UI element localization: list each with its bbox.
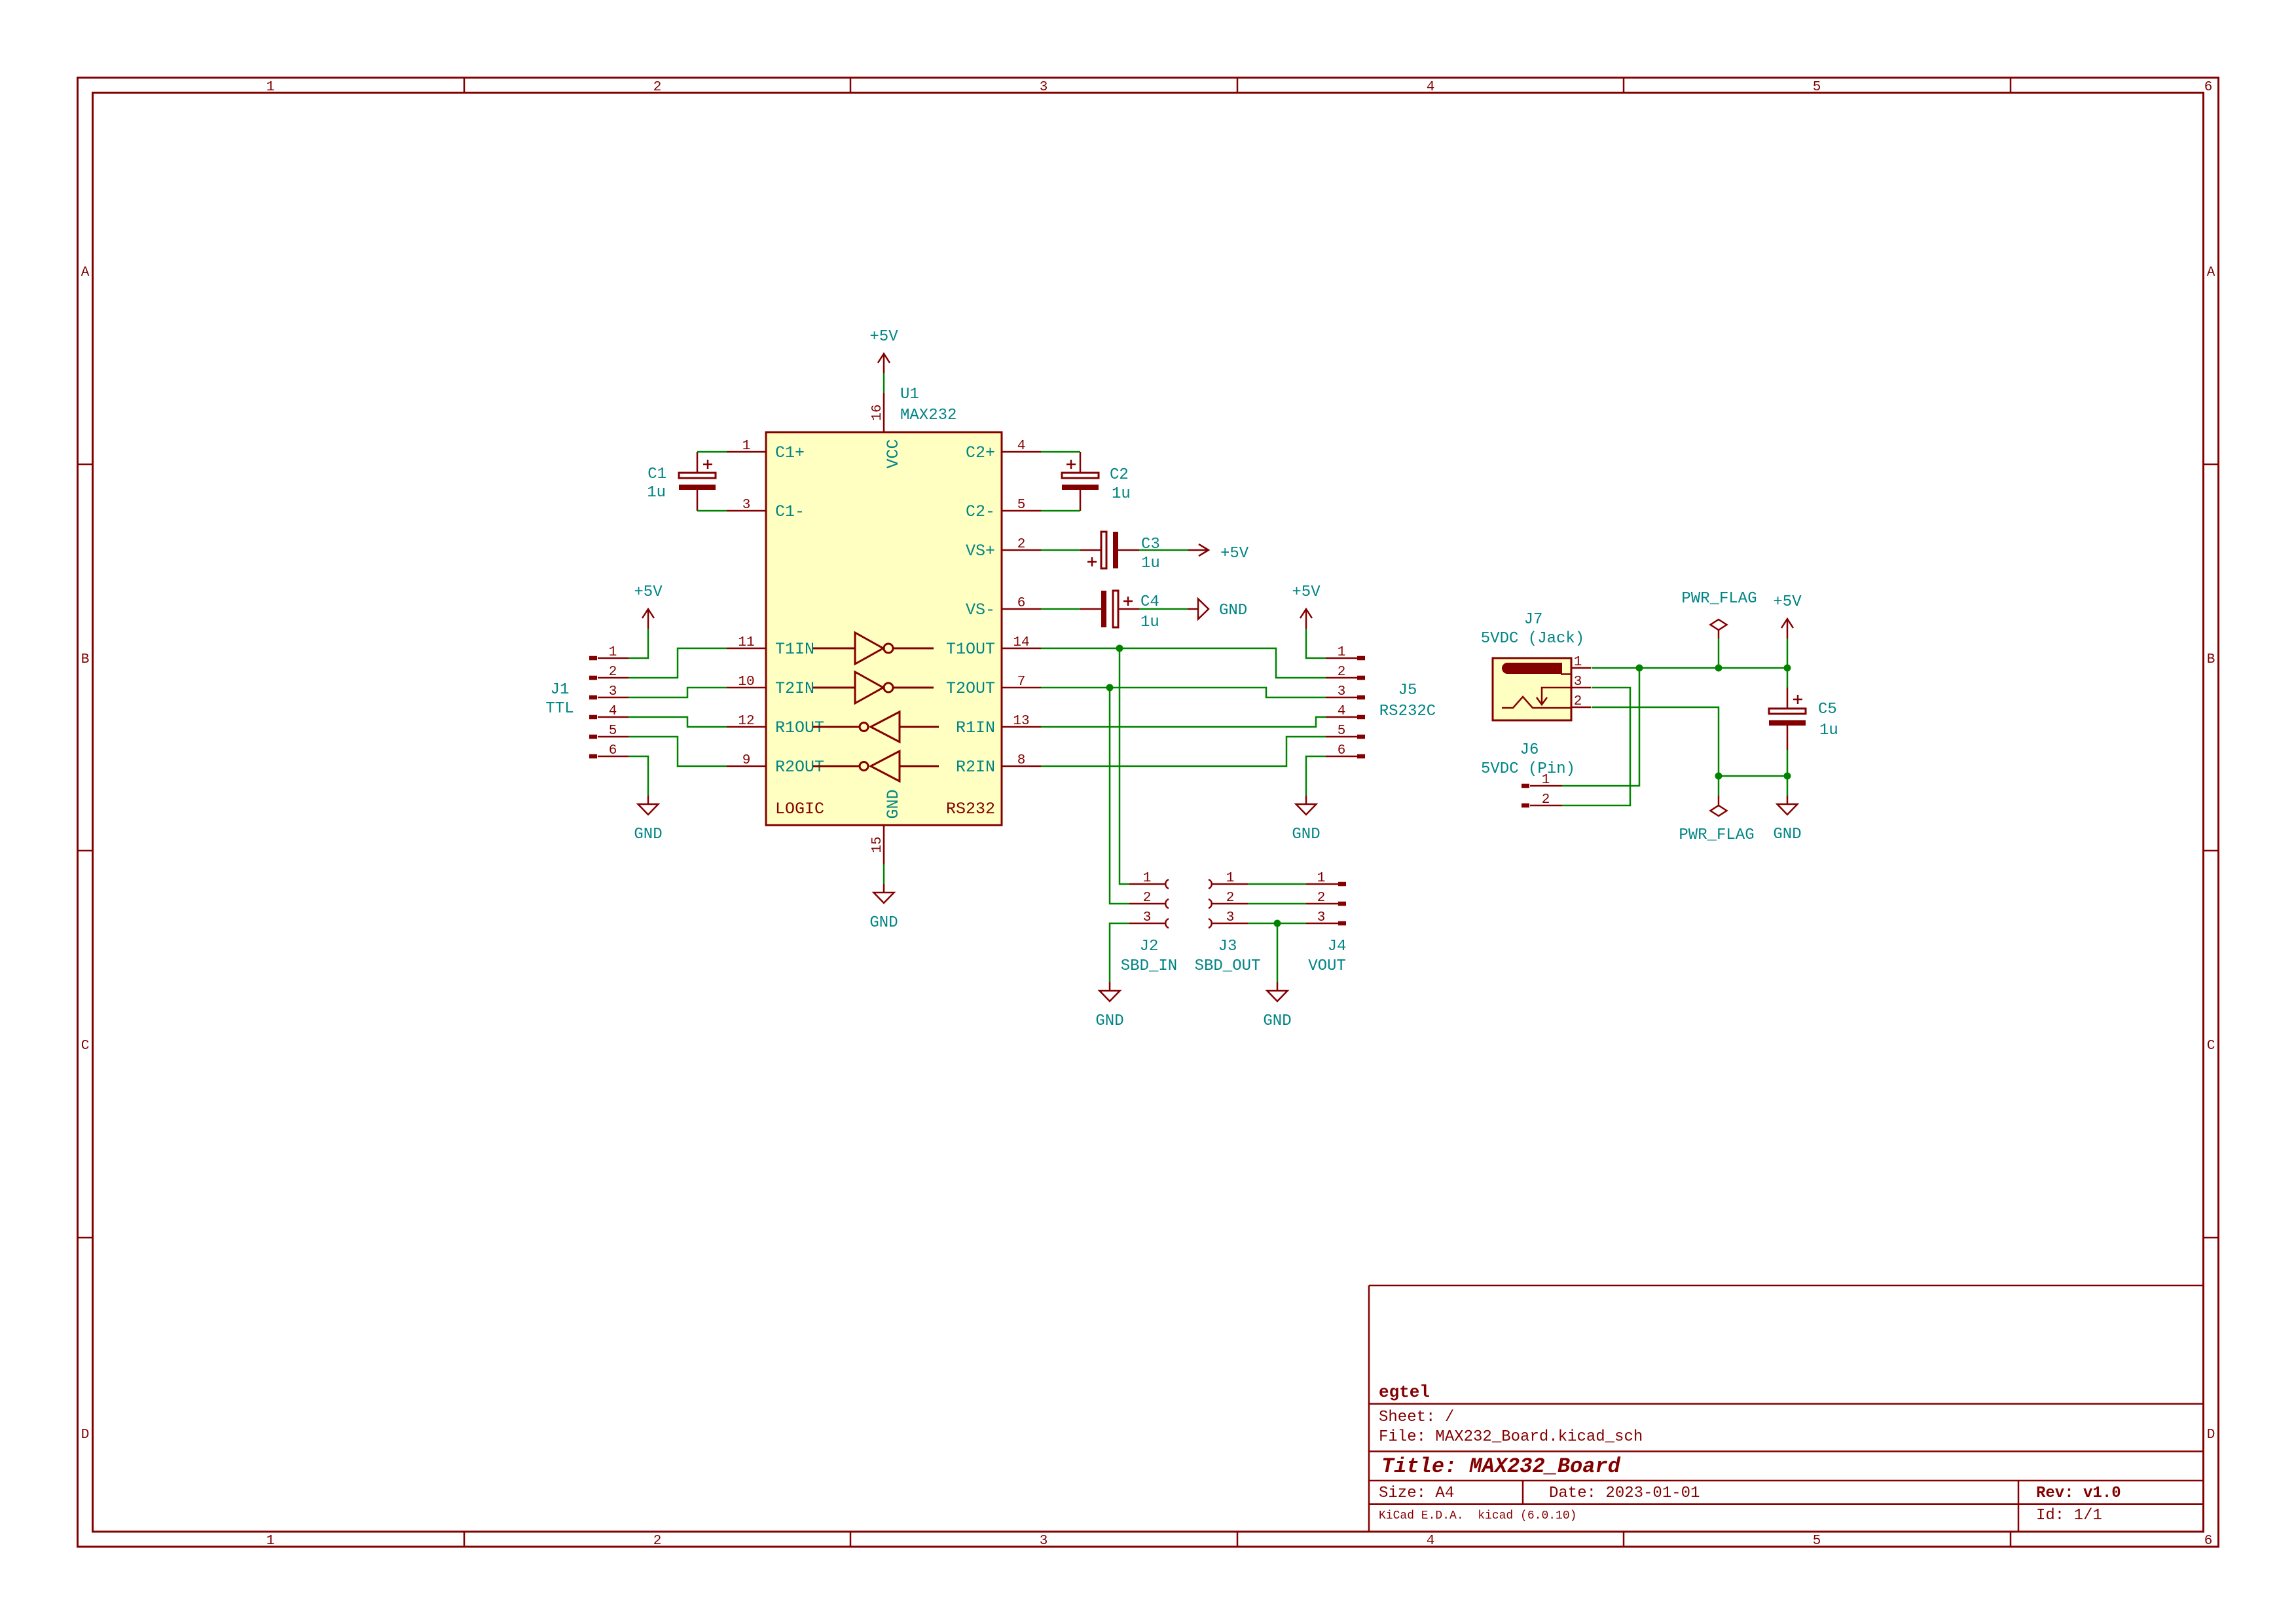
svg-text:+5V: +5V <box>1220 545 1249 563</box>
J5 pin 2 <box>1357 676 1365 680</box>
svg-text:6: 6 <box>1338 743 1346 758</box>
junction T2OUT <box>1106 684 1114 692</box>
capacitor C5 top plate <box>1769 709 1806 714</box>
svg-text:GND: GND <box>1292 826 1320 843</box>
svg-text:J4: J4 <box>1328 938 1347 955</box>
svg-text:A: A <box>2207 265 2215 280</box>
svg-text:T2OUT: T2OUT <box>946 679 995 698</box>
junction +5V rail J6 <box>1636 665 1643 672</box>
frame column ticks top <box>464 78 465 93</box>
svg-text:C1-: C1- <box>775 502 805 521</box>
wire J7 pin3 to J6 pin2 <box>1562 688 1630 805</box>
svg-text:Date: 2023-01-01: Date: 2023-01-01 <box>1549 1485 1700 1502</box>
power GND below J5 <box>1305 796 1307 804</box>
power GND right-facing at C4 <box>1188 608 1198 610</box>
J2 pin 3 <box>1129 923 1165 925</box>
svg-text:2: 2 <box>653 1534 662 1549</box>
svg-text:4: 4 <box>1017 439 1026 454</box>
J7 switch arrow <box>1542 688 1571 704</box>
svg-text:3: 3 <box>1338 684 1346 699</box>
capacitor C5 bottom plate <box>1769 720 1806 726</box>
wire T1OUT junction to J2 pin1 <box>1120 648 1129 884</box>
svg-text:PWR_FLAG: PWR_FLAG <box>1679 826 1754 844</box>
wire U1 pin4 to C2 top <box>1041 451 1080 453</box>
J5 pin 1 <box>1357 656 1365 661</box>
svg-text:8: 8 <box>1017 753 1026 768</box>
svg-text:GND: GND <box>884 789 903 819</box>
U1 pin 9 R2OUT <box>727 766 766 767</box>
svg-text:3: 3 <box>1040 80 1048 95</box>
svg-text:RS232: RS232 <box>946 800 995 819</box>
frame row ticks right <box>2204 464 2219 466</box>
capacitor C3 pin left <box>1080 549 1101 551</box>
svg-text:5VDC (Jack): 5VDC (Jack) <box>1481 630 1584 648</box>
wire rail to J6 pin1 <box>1562 668 1639 786</box>
U1 pin 12 R1OUT <box>727 726 766 728</box>
wire VOUT junction to GND <box>1277 923 1279 982</box>
svg-text:2: 2 <box>1338 665 1346 680</box>
svg-text:2: 2 <box>1143 891 1152 906</box>
svg-text:2: 2 <box>1317 891 1326 906</box>
svg-text:GND: GND <box>1219 602 1247 619</box>
svg-text:4: 4 <box>1338 704 1346 719</box>
U1 pin 7 T2OUT <box>1002 687 1041 689</box>
U1 pin 5 C2- <box>1002 510 1041 512</box>
svg-text:5: 5 <box>1338 724 1346 739</box>
wire C4 to GND <box>1139 608 1188 610</box>
svg-text:T1IN: T1IN <box>775 640 814 659</box>
svg-text:13: 13 <box>1013 714 1029 729</box>
J1 pin 1 <box>589 656 597 661</box>
wire J1 pin5 to R2OUT <box>629 737 727 766</box>
svg-text:10: 10 <box>738 674 754 690</box>
svg-text:9: 9 <box>742 753 751 768</box>
svg-text:J7: J7 <box>1524 611 1543 629</box>
U1 pin 4 C2+ <box>1002 451 1041 453</box>
capacitor C5 pin bottom <box>1787 726 1789 750</box>
U1 inverter T2 <box>813 687 855 689</box>
svg-text:7: 7 <box>1017 674 1026 690</box>
capacitor C1 bottom plate <box>679 485 716 490</box>
J4 pin 2 <box>1306 903 1338 905</box>
wire J1 pin6 to GND <box>629 756 648 796</box>
J5 pin 6 <box>1357 754 1365 759</box>
svg-text:C2-: C2- <box>966 502 995 521</box>
U1 pin 6 VS- <box>1002 608 1041 610</box>
svg-text:3: 3 <box>742 498 751 513</box>
wire J5 pin1 to +5V <box>1306 629 1326 658</box>
wire J3 pin1 to J4 pin1 <box>1248 883 1306 885</box>
power GND below J1 <box>647 796 649 804</box>
svg-text:VCC: VCC <box>884 439 903 468</box>
svg-text:4: 4 <box>1427 80 1435 95</box>
junction +5V rail C5 <box>1784 665 1791 672</box>
svg-text:C: C <box>81 1039 90 1054</box>
power GND right section <box>1787 796 1789 804</box>
svg-text:PWR_FLAG: PWR_FLAG <box>1681 590 1757 608</box>
svg-text:5: 5 <box>609 724 617 739</box>
svg-text:5: 5 <box>1813 1534 1821 1549</box>
capacitor C2 pin bottom <box>1080 490 1082 511</box>
wire U1 pin16 to +5V <box>883 373 885 393</box>
wire C1 top to U1 pin1 <box>697 451 727 453</box>
svg-text:Id: 1/1: Id: 1/1 <box>2036 1507 2102 1524</box>
capacitor C1 pin top <box>697 452 699 473</box>
wire U1 pin15 to GND <box>883 864 885 884</box>
wire J1 pin4 to R1OUT <box>629 717 727 727</box>
svg-text:C1: C1 <box>647 466 666 483</box>
J7 switch zigzag <box>1502 697 1571 708</box>
svg-text:3: 3 <box>609 684 617 699</box>
svg-text:TTL: TTL <box>545 700 574 718</box>
J7 pin 1 <box>1571 667 1591 669</box>
capacitor C4 pin right <box>1118 608 1139 610</box>
J3 pin 3 <box>1212 923 1248 925</box>
title block divider size/date <box>1522 1481 1524 1504</box>
J7 pin 3 <box>1571 687 1591 689</box>
svg-text:3: 3 <box>1143 910 1152 925</box>
svg-text:Size: A4: Size: A4 <box>1379 1485 1454 1502</box>
wire J7 pin1 +5V rail <box>1592 667 1787 669</box>
svg-text:C2+: C2+ <box>966 443 995 462</box>
wire C3 to +5V <box>1139 549 1188 551</box>
svg-text:R1IN: R1IN <box>956 718 995 737</box>
capacitor C3 left plate <box>1101 532 1106 568</box>
svg-text:U1: U1 <box>900 386 919 403</box>
capacitor C4 right plate <box>1113 591 1118 627</box>
svg-text:J3: J3 <box>1218 938 1237 955</box>
svg-text:T1OUT: T1OUT <box>946 640 995 659</box>
J1 pin 4 <box>589 715 597 720</box>
U1 pin 14 T1OUT <box>1002 648 1041 650</box>
wire J2 pin3 to GND <box>1110 923 1129 982</box>
svg-text:GND: GND <box>1095 1012 1123 1030</box>
svg-text:6: 6 <box>2204 1534 2213 1549</box>
title block row lines <box>1369 1403 2204 1405</box>
wire C1 bottom to U1 pin3 <box>697 510 727 512</box>
U1 pin 3 C1- <box>727 510 766 512</box>
wire R2IN to J5 pin5 <box>1041 737 1326 766</box>
C4 plus sign <box>1123 600 1133 602</box>
svg-text:2: 2 <box>1574 694 1582 709</box>
capacitor C3 pin right <box>1118 549 1139 551</box>
IC U1 MAX232 body <box>766 432 1002 825</box>
svg-text:3: 3 <box>1574 674 1582 690</box>
title block divider rev/id <box>2018 1481 2020 1532</box>
svg-text:A: A <box>81 265 90 280</box>
wire J1 pin2 to T1IN <box>629 648 727 678</box>
svg-text:6: 6 <box>2204 80 2213 95</box>
J5 pin 3 <box>1357 695 1365 700</box>
J3 pin 2 <box>1212 903 1248 905</box>
svg-text:2: 2 <box>1542 792 1550 807</box>
svg-text:Rev: v1.0: Rev: v1.0 <box>2036 1485 2121 1502</box>
svg-text:1: 1 <box>609 645 617 660</box>
svg-text:egtel: egtel <box>1379 1382 1430 1402</box>
svg-text:SBD_OUT: SBD_OUT <box>1195 957 1261 975</box>
J3 pin 1 <box>1212 883 1248 885</box>
svg-text:16: 16 <box>870 404 885 420</box>
svg-text:D: D <box>2207 1428 2215 1443</box>
svg-text:J2: J2 <box>1140 938 1159 955</box>
svg-text:1: 1 <box>1574 655 1582 670</box>
svg-text:D: D <box>81 1428 90 1443</box>
svg-text:B: B <box>81 652 90 667</box>
power flag PWR_FLAG bottom <box>1718 796 1720 805</box>
svg-text:GND: GND <box>634 826 662 843</box>
J1 pin 3 <box>589 695 597 700</box>
wire GND rail to PWR_FLAG bottom <box>1718 776 1720 796</box>
svg-text:1u: 1u <box>1141 555 1160 572</box>
power flag PWR_FLAG top <box>1718 630 1720 638</box>
wire J5 pin6 to GND <box>1306 756 1326 796</box>
frame column ticks bottom <box>464 1532 465 1547</box>
svg-text:+5V: +5V <box>1292 583 1321 601</box>
power +5V right-facing at C3 <box>1188 549 1209 551</box>
junction GND rail PWR_FLAG <box>1715 773 1722 780</box>
svg-text:1u: 1u <box>1819 722 1838 739</box>
svg-text:B: B <box>2207 652 2215 667</box>
svg-text:SBD_IN: SBD_IN <box>1121 957 1177 975</box>
svg-text:File: MAX232_Board.kicad_sch: File: MAX232_Board.kicad_sch <box>1379 1428 1643 1446</box>
title block outline <box>1369 1285 2204 1532</box>
J1 pin 5 <box>589 735 597 739</box>
wire J1 pin3 to T2IN <box>629 688 727 697</box>
J4 pin 3 <box>1306 923 1338 925</box>
power +5V above U1 <box>883 354 885 373</box>
U1 pin 10 T2IN <box>727 687 766 689</box>
power GND below J2 <box>1109 982 1111 991</box>
svg-text:+5V: +5V <box>1773 593 1802 611</box>
svg-text:3: 3 <box>1317 910 1326 925</box>
wire PWR_FLAG top to rail <box>1718 638 1720 668</box>
J6 pin 2 <box>1522 803 1529 808</box>
svg-text:1u: 1u <box>1112 485 1131 503</box>
svg-text:5: 5 <box>1017 498 1026 513</box>
svg-text:LOGIC: LOGIC <box>775 800 824 819</box>
C5 plus sign <box>1793 699 1802 701</box>
svg-text:2: 2 <box>609 665 617 680</box>
wire J3 pin3 to J4 pin3 <box>1248 923 1306 925</box>
J7 pin 2 <box>1571 707 1591 709</box>
wire +5V to rail <box>1787 638 1789 668</box>
frame row ticks left <box>78 464 93 466</box>
wire R1IN to J5 pin4 <box>1041 717 1326 727</box>
svg-text:GND: GND <box>1773 826 1801 843</box>
svg-text:T2IN: T2IN <box>775 679 814 698</box>
wire T2OUT to J5 pin3 <box>1041 688 1326 697</box>
J4 pin 1 <box>1306 883 1338 885</box>
svg-text:4: 4 <box>1427 1534 1435 1549</box>
svg-text:C2: C2 <box>1110 466 1129 484</box>
svg-text:J6: J6 <box>1520 741 1539 759</box>
wire C5 bottom to GND rail <box>1787 750 1789 776</box>
power +5V above J1 <box>647 609 649 629</box>
wire J1 pin1 to +5V <box>629 629 648 658</box>
power GND below U1 <box>883 884 885 893</box>
svg-text:MAX232: MAX232 <box>900 407 957 424</box>
U1 pin 1 C1+ <box>727 451 766 453</box>
capacitor C4 left plate <box>1101 591 1106 627</box>
svg-text:C5: C5 <box>1818 701 1837 718</box>
U1 inverter T1 <box>813 648 855 650</box>
capacitor C2 bottom plate <box>1062 485 1099 490</box>
svg-text:1u: 1u <box>647 484 666 502</box>
svg-text:+5V: +5V <box>869 328 898 346</box>
svg-text:1: 1 <box>266 80 275 95</box>
junction GND rail C5 <box>1784 773 1791 780</box>
J6 pin 1 <box>1522 784 1529 788</box>
U1 pin 15 GND <box>883 825 885 864</box>
svg-text:+5V: +5V <box>634 583 663 601</box>
wire T1OUT to J5 pin2 <box>1041 648 1326 678</box>
junction T1OUT <box>1116 645 1123 652</box>
capacitor C3 right plate <box>1113 532 1118 568</box>
svg-text:6: 6 <box>1017 596 1026 611</box>
svg-text:1: 1 <box>1338 645 1346 660</box>
wire J7 pin2 to GND rail <box>1592 707 1719 776</box>
capacitor C4 pin left <box>1080 608 1101 610</box>
capacitor C1 pin bottom <box>697 490 699 511</box>
J1 pin 6 <box>589 754 597 759</box>
U1 pin 8 R2IN <box>1002 766 1041 767</box>
J7 barrel tip bar <box>1502 663 1562 674</box>
J2 pin 1 <box>1129 883 1165 885</box>
U1 inverter R2 <box>813 766 860 767</box>
wire U1 pin5 to C2 bottom <box>1041 510 1080 512</box>
U1 pin 11 T1IN <box>727 648 766 650</box>
svg-text:11: 11 <box>738 635 754 650</box>
power +5V right section <box>1787 619 1789 638</box>
capacitor C5 pin top <box>1787 688 1789 709</box>
svg-text:Sheet: /: Sheet: / <box>1379 1409 1454 1426</box>
junction +5V rail PWR_FLAG <box>1715 665 1722 672</box>
junction VOUT <box>1274 920 1281 927</box>
svg-text:3: 3 <box>1040 1534 1048 1549</box>
svg-text:VS+: VS+ <box>966 542 995 561</box>
wire GND rail <box>1719 775 1787 777</box>
svg-text:1: 1 <box>1226 871 1235 886</box>
svg-text:2: 2 <box>653 80 662 95</box>
svg-text:12: 12 <box>738 714 754 729</box>
svg-text:15: 15 <box>870 836 885 853</box>
capacitor C1 top plate <box>679 473 716 478</box>
svg-text:VOUT: VOUT <box>1308 957 1346 975</box>
U1 pin 16 VCC <box>883 393 885 432</box>
power GND below J4 <box>1277 982 1279 991</box>
svg-text:1: 1 <box>1143 871 1152 886</box>
J5 pin 4 <box>1357 715 1365 720</box>
C1 plus sign <box>703 464 712 466</box>
svg-text:C: C <box>2207 1039 2215 1054</box>
capacitor C2 pin top <box>1080 452 1082 473</box>
U1 pin 13 R1IN <box>1002 726 1041 728</box>
wire rail to C5 top <box>1787 668 1789 688</box>
svg-text:1: 1 <box>1317 871 1326 886</box>
svg-text:1u: 1u <box>1140 614 1159 631</box>
wire GND rail to GND <box>1787 776 1789 796</box>
svg-text:3: 3 <box>1226 910 1235 925</box>
J1 pin 2 <box>589 676 597 680</box>
svg-text:VS-: VS- <box>966 600 995 619</box>
svg-text:Title: MAX232_Board: Title: MAX232_Board <box>1381 1454 1621 1479</box>
svg-text:2: 2 <box>1226 891 1235 906</box>
wire J3 pin2 to J4 pin2 <box>1248 903 1306 905</box>
svg-text:KiCad E.D.A. kicad (6.0.10): KiCad E.D.A. kicad (6.0.10) <box>1379 1509 1576 1522</box>
svg-text:6: 6 <box>609 743 617 758</box>
U1 pin 2 VS+ <box>1002 549 1041 551</box>
svg-text:R2IN: R2IN <box>956 758 995 777</box>
svg-text:GND: GND <box>1263 1012 1291 1030</box>
svg-text:J5: J5 <box>1398 682 1417 699</box>
svg-text:5: 5 <box>1813 80 1821 95</box>
svg-text:RS232C: RS232C <box>1379 703 1436 720</box>
wire U1 pin6 to C4 <box>1041 608 1080 610</box>
C3 plus sign <box>1087 561 1097 563</box>
svg-text:GND: GND <box>869 914 898 932</box>
U1 inverter R1 <box>813 726 860 728</box>
C2 plus sign <box>1066 464 1076 466</box>
J5 pin 5 <box>1357 735 1365 739</box>
wire U1 pin2 to C3 <box>1041 549 1080 551</box>
wire T2OUT junction to J2 pin2 <box>1110 688 1129 904</box>
capacitor C2 top plate <box>1062 473 1099 478</box>
svg-text:J1: J1 <box>551 681 570 699</box>
svg-text:5VDC (Pin): 5VDC (Pin) <box>1481 760 1575 778</box>
power +5V above J5 <box>1305 609 1307 629</box>
connector J7 5VDC Jack body <box>1493 658 1571 720</box>
svg-text:1: 1 <box>266 1534 275 1549</box>
svg-text:1: 1 <box>742 439 751 454</box>
svg-text:2: 2 <box>1017 537 1026 552</box>
J2 pin 2 <box>1129 903 1165 905</box>
svg-text:C1+: C1+ <box>775 443 805 462</box>
svg-text:14: 14 <box>1013 635 1029 650</box>
svg-text:4: 4 <box>609 704 617 719</box>
